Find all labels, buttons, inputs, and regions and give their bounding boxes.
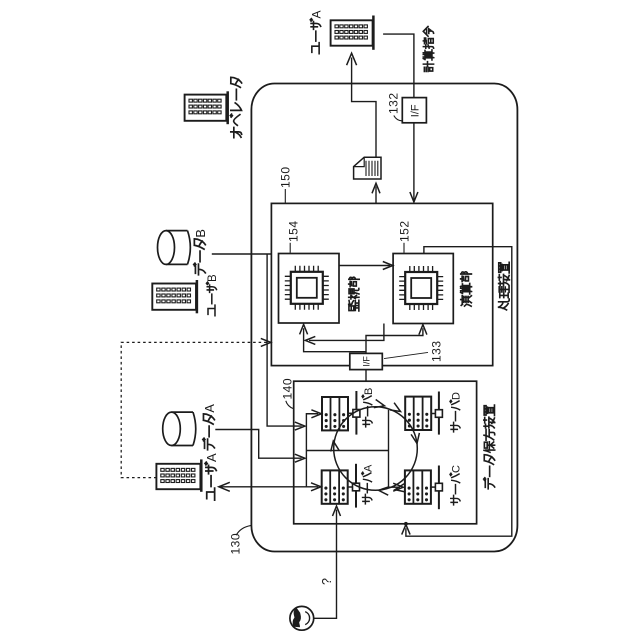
- svg-text:154: 154: [286, 220, 300, 242]
- text server B: [362, 388, 375, 427]
- svg-text:132: 132: [387, 92, 401, 114]
- svg-text:152: 152: [397, 220, 411, 242]
- text server A: [362, 464, 375, 504]
- svg-text:?: ?: [320, 578, 334, 585]
- text kanshi-bu: [349, 277, 359, 311]
- system box 130 (rounded): [251, 84, 517, 552]
- text server D: [450, 392, 463, 432]
- wire operation unit down-left arrow: [309, 324, 384, 341]
- svg-text:140: 140: [280, 378, 294, 400]
- wire monitor 154 to operation 152: [339, 265, 390, 267]
- wire bus to server A / user A line: [219, 486, 318, 488]
- document icon: [354, 157, 381, 179]
- wire from operation unit 152 around right side into storage 140: [406, 247, 512, 537]
- leader 140: [286, 401, 294, 409]
- clock icon: [290, 606, 314, 630]
- text user B: [207, 274, 220, 316]
- text user A top: [309, 10, 323, 53]
- svg-text:A: A: [309, 10, 323, 18]
- data storage box 140: [294, 381, 477, 524]
- processing device box 150: [271, 203, 492, 365]
- chord wire inside ring: [388, 410, 390, 487]
- svg-text:A: A: [204, 453, 219, 462]
- wire document up-left to user A keyboard: [352, 58, 376, 158]
- wire data B to bus: [212, 254, 302, 426]
- svg-text:I/F: I/F: [362, 356, 372, 367]
- svg-text:C: C: [451, 465, 463, 473]
- svg-text:B: B: [207, 274, 219, 282]
- leader 132: [394, 116, 402, 121]
- server D port: [431, 392, 442, 435]
- ring rotation arrows: [374, 400, 385, 408]
- database data A: [163, 412, 196, 445]
- text data B: [193, 229, 208, 275]
- svg-text:B: B: [363, 388, 375, 395]
- svg-text:I/F: I/F: [409, 104, 421, 117]
- text keisan-shirei: [423, 26, 433, 71]
- text user A bottom: [204, 453, 219, 500]
- wire clock to server A: [314, 510, 337, 619]
- text operator: [230, 77, 241, 137]
- text data A: [202, 404, 217, 450]
- server B port: [348, 391, 360, 435]
- synchronization ring circle: [334, 407, 418, 491]
- server B icon: [322, 397, 348, 430]
- leader 150: [284, 189, 286, 203]
- leader 152: [403, 243, 405, 253]
- text data-hozon-souchi: [484, 405, 495, 489]
- wire I/F133 down to storage 140: [365, 370, 367, 382]
- server C port: [431, 466, 443, 510]
- keyboard user A bottom: [156, 459, 201, 491]
- server A icon: [322, 470, 348, 503]
- monitor unit 154 (chip): [279, 254, 340, 324]
- feeder wire from bus into ring: [306, 450, 388, 452]
- wire box150 up to document: [375, 187, 377, 204]
- wire data A to bus: [215, 430, 301, 459]
- svg-text:A: A: [363, 464, 375, 472]
- leader 154: [289, 243, 291, 253]
- database data B: [158, 231, 191, 265]
- text enzan-bu: [461, 272, 472, 306]
- wire chord to server C: [389, 486, 401, 488]
- svg-text:133: 133: [430, 340, 444, 362]
- svg-text:130: 130: [229, 533, 243, 555]
- wire I/F133 stem up: [366, 328, 423, 353]
- leader 130: [236, 526, 250, 536]
- text shori-souchi: [498, 262, 509, 310]
- interface box I/F 133: [350, 353, 383, 369]
- svg-text:150: 150: [278, 166, 292, 188]
- keyboard operator: [185, 91, 228, 124]
- svg-text:D: D: [451, 392, 463, 400]
- leader 133: [384, 352, 428, 358]
- operation unit 152 (chip): [393, 254, 453, 324]
- svg-text:A: A: [202, 404, 217, 413]
- svg-text:B: B: [193, 229, 208, 238]
- server A port: [348, 464, 360, 508]
- keyboard user B: [152, 280, 197, 313]
- server D icon: [405, 397, 431, 430]
- wire command line from user A keyboard to I/F 132: [383, 34, 414, 98]
- text server C: [450, 465, 463, 505]
- server C icon: [405, 470, 431, 503]
- wire I/F 132 down into box 150: [413, 123, 415, 202]
- interface box I/F 132: [402, 98, 426, 123]
- keyboard user A top: [331, 16, 374, 50]
- dashed wire user A keyboard to box 150: [121, 342, 266, 477]
- wire I/F133 branch to monitor: [304, 328, 366, 352]
- bus wire left inside storage: [306, 414, 318, 487]
